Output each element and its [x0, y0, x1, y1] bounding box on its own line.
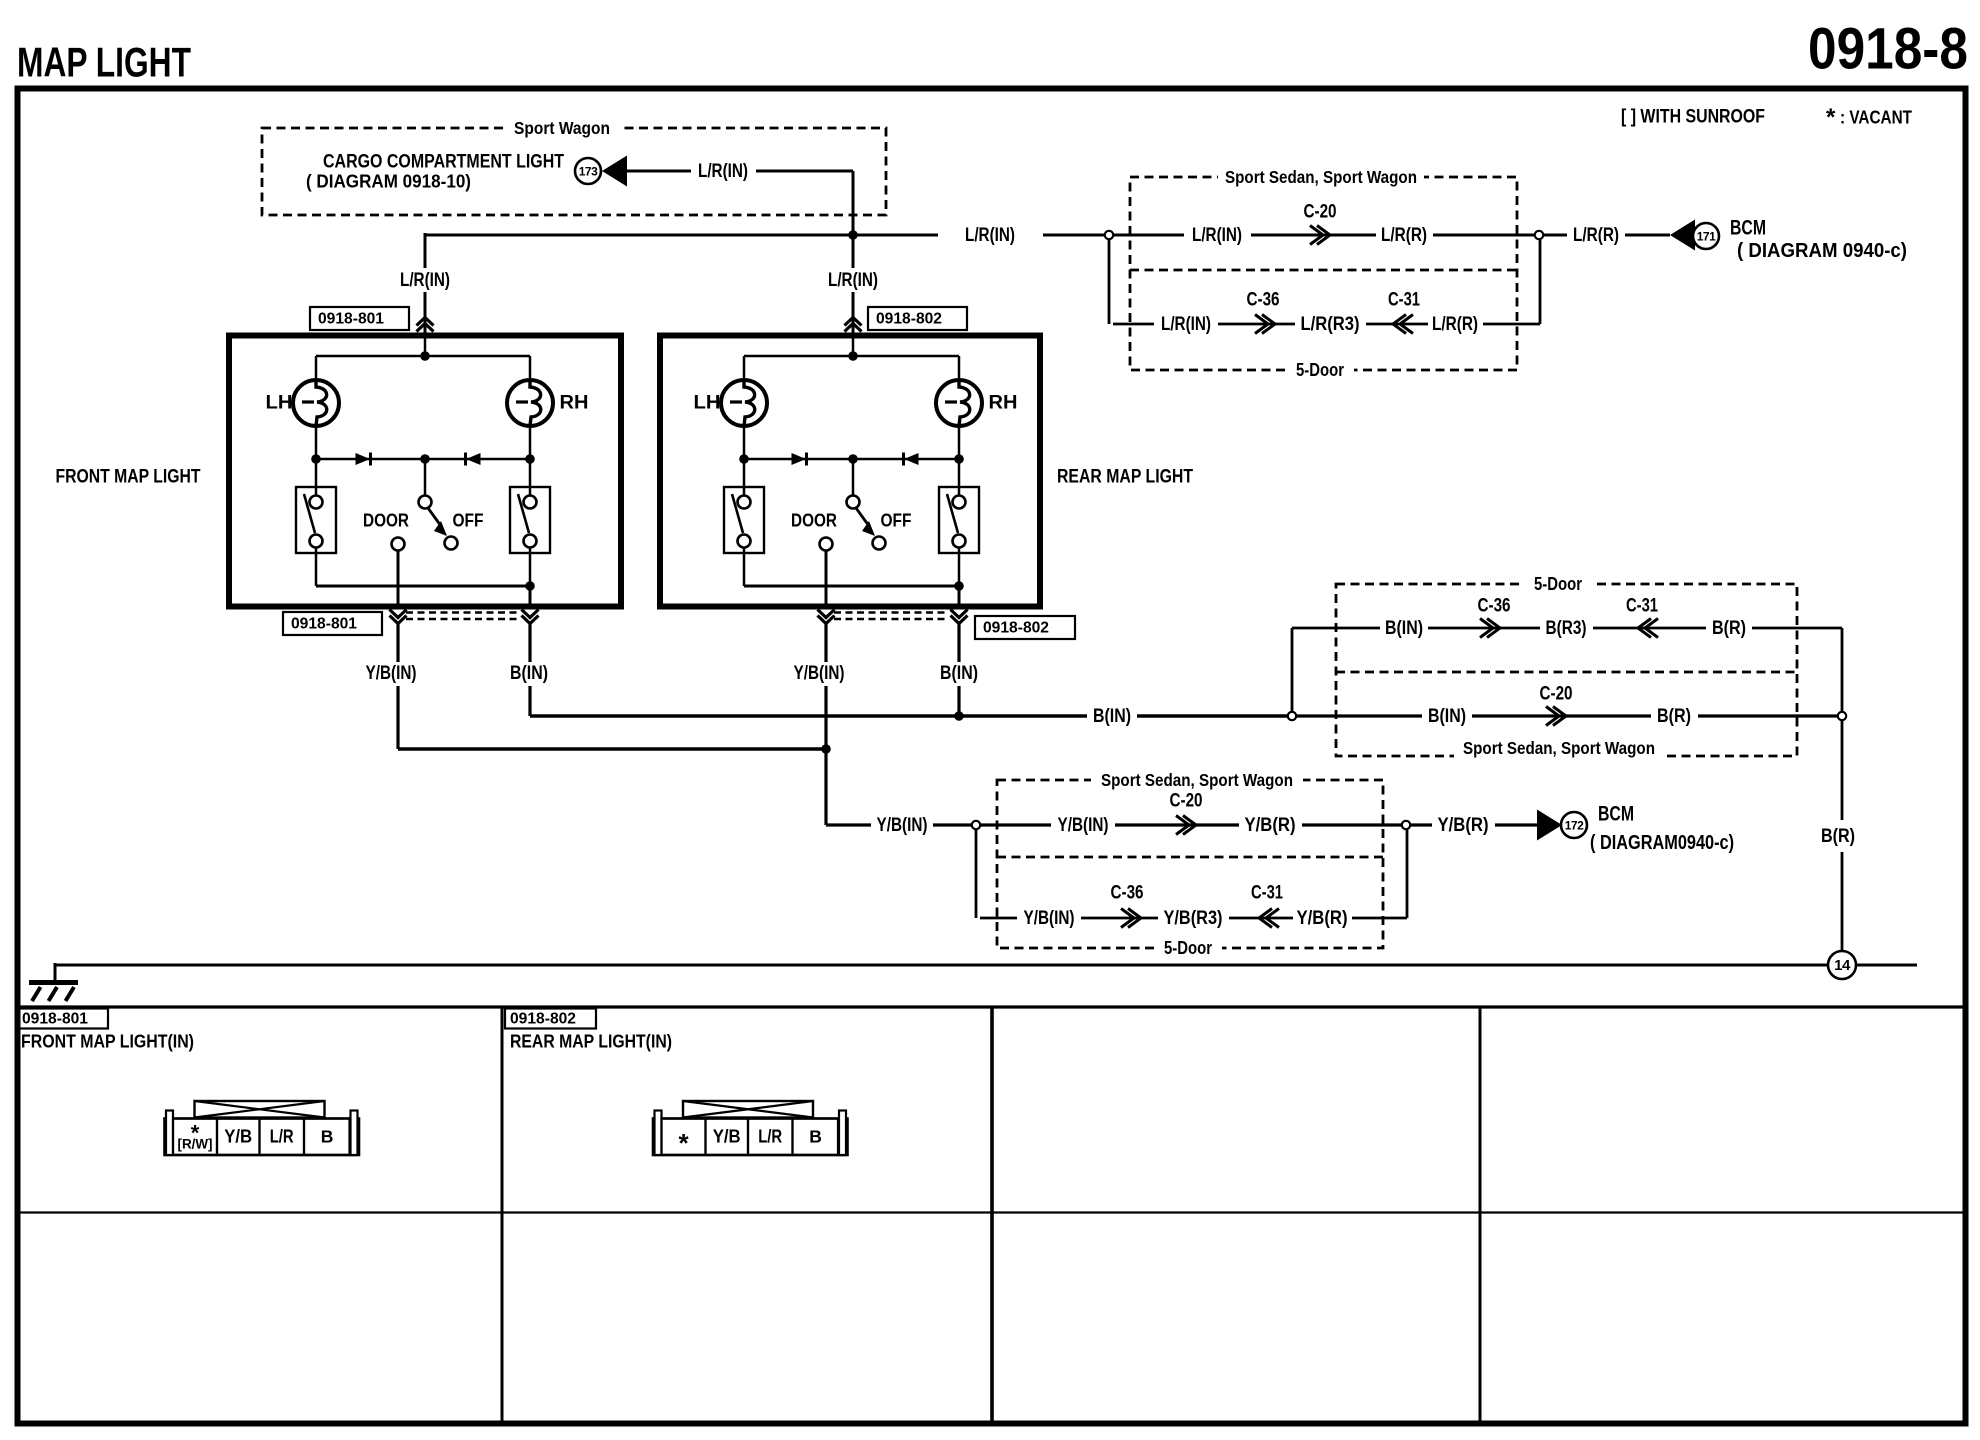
connector label 0918-801 top — [310, 307, 409, 330]
svg-text:REAR MAP LIGHT(IN): REAR MAP LIGHT(IN) — [510, 1031, 672, 1052]
rear RH door switch — [958, 459, 961, 496]
svg-text:L/R(R): L/R(R) — [1573, 224, 1619, 246]
svg-text:[R/W]: [R/W] — [178, 1137, 213, 1152]
ground connection circle 14 — [1828, 951, 1856, 979]
svg-text:[ ] WITH SUNROOF: [ ] WITH SUNROOF — [1621, 107, 1765, 128]
svg-text:BCM: BCM — [1598, 803, 1634, 826]
svg-text:B(IN): B(IN) — [940, 662, 978, 684]
svg-text:L/R(IN): L/R(IN) — [965, 224, 1015, 246]
svg-text:B(IN): B(IN) — [1385, 617, 1423, 639]
wire Y/B bus — [398, 747, 825, 751]
arrow to cargo compartment light — [602, 156, 627, 187]
rear inner bottom wire — [743, 548, 746, 587]
svg-text:( DIAGRAM 0918-10): ( DIAGRAM 0918-10) — [306, 171, 471, 192]
svg-text:Y/B(R): Y/B(R) — [1438, 814, 1489, 836]
svg-text:L/R: L/R — [758, 1127, 782, 1147]
svg-text:C-31: C-31 — [1251, 883, 1283, 904]
connector circle 173 — [575, 158, 601, 184]
Y/B 5-door row — [975, 829, 978, 918]
svg-text:: VACANT: : VACANT — [1840, 107, 1913, 128]
diode rear right — [904, 453, 919, 465]
svg-text:Sport Sedan, Sport Wagon: Sport Sedan, Sport Wagon — [1225, 167, 1417, 187]
rear DOOR/OFF selector switch — [852, 459, 855, 496]
ground symbol — [54, 963, 57, 982]
bulb rear RH — [936, 380, 982, 426]
svg-text:LH: LH — [694, 393, 721, 414]
svg-text:Y/B(IN): Y/B(IN) — [794, 662, 845, 684]
svg-text:Y/B(R): Y/B(R) — [1297, 907, 1348, 929]
svg-text:OFF: OFF — [881, 510, 912, 531]
wire front Y/B(IN) — [396, 624, 399, 662]
connector circle 171 — [1693, 223, 1719, 249]
svg-text:REAR MAP LIGHT: REAR MAP LIGHT — [1057, 467, 1193, 488]
wire to rear map light — [852, 235, 855, 268]
connector label 0918-802 top — [868, 307, 967, 330]
svg-text:5-Door: 5-Door — [1296, 360, 1344, 380]
bulb rear LH — [721, 380, 767, 426]
svg-text:Y/B(IN): Y/B(IN) — [1024, 907, 1075, 929]
rear bottom connector chevrons — [818, 610, 835, 618]
wire rear Y/B(IN) — [824, 624, 827, 662]
svg-text:5-Door: 5-Door — [1164, 938, 1212, 958]
svg-text:C-36: C-36 — [1247, 290, 1280, 311]
rear map light unit box — [660, 336, 1040, 607]
connector 0918-802 pin face — [683, 1101, 813, 1118]
svg-text:0918-802: 0918-802 — [510, 1011, 576, 1028]
svg-text:RH: RH — [560, 393, 589, 414]
svg-text:0918-802: 0918-802 — [876, 311, 942, 328]
arrow to BCM 172 — [1537, 810, 1562, 841]
svg-text:L/R(IN): L/R(IN) — [1161, 313, 1211, 335]
node B(IN) bus — [530, 714, 1087, 718]
svg-text:C-31: C-31 — [1626, 596, 1658, 617]
svg-text:Y/B: Y/B — [224, 1127, 252, 1147]
svg-text:FRONT MAP LIGHT: FRONT MAP LIGHT — [56, 467, 201, 488]
wire front B(IN) — [528, 624, 531, 662]
svg-text:B(IN): B(IN) — [1428, 705, 1466, 727]
svg-text:L/R(R): L/R(R) — [1432, 313, 1478, 335]
svg-text:DOOR: DOOR — [363, 510, 409, 531]
svg-text:C-20: C-20 — [1304, 202, 1337, 223]
svg-text:C-36: C-36 — [1111, 883, 1144, 904]
front bottom connector chevrons — [390, 610, 407, 618]
svg-text:C-20: C-20 — [1170, 791, 1203, 812]
svg-text:L/R(IN): L/R(IN) — [400, 269, 450, 291]
connector 0918-801 pin face — [195, 1101, 325, 1118]
svg-text:C-31: C-31 — [1388, 290, 1420, 311]
svg-text:0918-802: 0918-802 — [983, 620, 1049, 637]
svg-text:L/R(IN): L/R(IN) — [828, 269, 878, 291]
wire L/R(IN) to cargo light — [627, 170, 691, 173]
svg-text:( DIAGRAM0940-c): ( DIAGRAM0940-c) — [1590, 832, 1734, 854]
ground bus — [55, 964, 1828, 967]
svg-text:5-Door: 5-Door — [1534, 574, 1582, 594]
wire to front map light — [424, 233, 427, 268]
svg-text:BCM: BCM — [1730, 217, 1766, 240]
wire Y/B(R) to BCM — [1410, 823, 1432, 826]
svg-text:Y/B(IN): Y/B(IN) — [1058, 814, 1109, 836]
node L/R(IN) bus — [425, 234, 938, 237]
svg-text:C-36: C-36 — [1478, 596, 1511, 617]
svg-text:B: B — [321, 1127, 333, 1147]
front inner top wire — [316, 355, 530, 358]
L/R 5-door row — [1108, 239, 1111, 324]
svg-text:14: 14 — [1834, 957, 1851, 974]
front inner bottom wire — [315, 548, 318, 587]
svg-text:0918-8: 0918-8 — [1808, 17, 1968, 82]
rear DOOR contact — [820, 538, 833, 551]
svg-text:B(IN): B(IN) — [1093, 705, 1131, 727]
rear inner top wire — [744, 355, 959, 358]
svg-text:B(R3): B(R3) — [1546, 617, 1587, 639]
bulb front RH — [507, 380, 553, 426]
svg-text:L/R: L/R — [270, 1127, 294, 1147]
svg-text:Sport Wagon: Sport Wagon — [514, 118, 610, 138]
svg-text:B(IN): B(IN) — [510, 662, 548, 684]
svg-text:LH: LH — [266, 393, 293, 414]
svg-text:L/R(IN): L/R(IN) — [698, 160, 748, 182]
wire L/R(R) to BCM — [1543, 234, 1567, 237]
svg-text:B(R): B(R) — [1712, 617, 1746, 639]
table label 0918-801 — [17, 1009, 108, 1029]
svg-text:*: * — [678, 1128, 689, 1158]
svg-text:B(R): B(R) — [1657, 705, 1691, 727]
B(IN) C-20 row (sedan/wagon) — [1296, 714, 1422, 717]
front map light unit box — [229, 336, 621, 607]
rear diode row — [743, 426, 746, 459]
diode front right — [466, 453, 481, 465]
svg-text:MAP LIGHT: MAP LIGHT — [17, 39, 191, 86]
svg-text:Y/B(IN): Y/B(IN) — [877, 814, 928, 836]
connector chevron into front box — [417, 318, 434, 326]
svg-text:Y/B: Y/B — [713, 1127, 741, 1147]
front DOOR contact — [392, 538, 405, 551]
front LH door switch — [315, 459, 318, 496]
connector label 0918-802 bottom — [975, 616, 1075, 639]
svg-text:Y/B(IN): Y/B(IN) — [366, 662, 417, 684]
L/R sedan/5-door dashed box — [1130, 177, 1517, 370]
svg-text:0918-801: 0918-801 — [318, 311, 384, 328]
svg-text:DOOR: DOOR — [791, 510, 837, 531]
junction cargo/rear map light — [848, 230, 858, 240]
table frame — [17, 1005, 1967, 1008]
wire rear B(IN) — [957, 624, 960, 662]
svg-text:Sport Sedan, Sport Wagon: Sport Sedan, Sport Wagon — [1463, 738, 1655, 758]
svg-text:B(R): B(R) — [1821, 825, 1855, 847]
svg-text:L/R(R): L/R(R) — [1381, 224, 1427, 246]
svg-text:171: 171 — [1697, 230, 1716, 244]
rear LH door switch — [743, 459, 746, 496]
svg-text:0918-801: 0918-801 — [22, 1011, 88, 1028]
table label 0918-802 — [505, 1009, 596, 1029]
svg-text:Y/B(R): Y/B(R) — [1245, 814, 1296, 836]
Sport Wagon option dashed box — [262, 128, 886, 215]
front diode row — [315, 426, 318, 459]
svg-text:L/R(IN): L/R(IN) — [1192, 224, 1242, 246]
svg-text:CARGO COMPARTMENT LIGHT: CARGO COMPARTMENT LIGHT — [323, 152, 564, 173]
diode front left — [356, 453, 371, 465]
connector label 0918-801 bottom — [283, 612, 382, 635]
svg-text:RH: RH — [989, 393, 1018, 414]
arrow to BCM 171 — [1670, 220, 1695, 251]
svg-text:( DIAGRAM 0940-c): ( DIAGRAM 0940-c) — [1737, 240, 1907, 262]
svg-text:*: * — [1826, 104, 1836, 131]
bulb front LH — [293, 380, 339, 426]
svg-text:173: 173 — [579, 165, 598, 179]
connector circle 172 — [1561, 812, 1587, 838]
Y/B sedan/5-door dashed box — [997, 780, 1383, 948]
svg-text:Sport Sedan, Sport Wagon: Sport Sedan, Sport Wagon — [1101, 770, 1293, 790]
front DOOR/OFF selector switch — [424, 459, 427, 496]
svg-text:OFF: OFF — [453, 510, 484, 531]
svg-text:0918-801: 0918-801 — [291, 616, 357, 633]
Y/B C-20 row — [980, 823, 1051, 826]
svg-text:Y/B(R3): Y/B(R3) — [1164, 907, 1223, 929]
front RH door switch — [529, 459, 532, 496]
connector chevron into rear box — [845, 318, 862, 326]
wire B(R) down to ground point — [1841, 720, 1844, 820]
B 5-door/sedan dashed box — [1336, 584, 1797, 756]
svg-text:C-20: C-20 — [1540, 684, 1573, 705]
svg-text:B: B — [809, 1127, 821, 1147]
L/R C-20 row — [1113, 234, 1184, 237]
svg-text:L/R(R3): L/R(R3) — [1301, 313, 1360, 335]
svg-text:172: 172 — [1565, 819, 1584, 833]
svg-text:FRONT MAP LIGHT(IN): FRONT MAP LIGHT(IN) — [21, 1031, 194, 1052]
B(R3) row (5-door) — [1291, 628, 1294, 712]
diode rear left — [792, 453, 807, 465]
